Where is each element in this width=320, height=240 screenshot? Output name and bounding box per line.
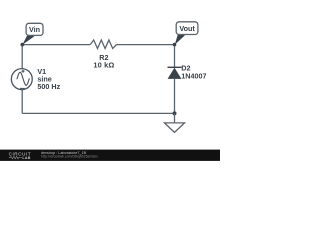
wire: V1 bottom to bottom rail: [21, 90, 23, 114]
junction dot at Vin corner: [21, 43, 25, 47]
wire: top rail left segment (Vin corner to R2): [22, 44, 90, 46]
svg-text:1N4007: 1N4007: [181, 71, 206, 80]
CircuitLab logo: [9, 152, 32, 161]
svg-text:10 kΩ: 10 kΩ: [93, 61, 114, 70]
wire: diode to ground junction: [174, 79, 176, 114]
junction dot at Vout corner: [173, 43, 177, 47]
svg-text:Vin: Vin: [29, 25, 40, 34]
junction dot at ground node: [173, 111, 177, 115]
svg-text:http://circuitlab.com/c6kq6h25: http://circuitlab.com/c6kq6h25am3xx: [41, 154, 98, 158]
watermark bar: [0, 150, 220, 161]
svg-text:Vout: Vout: [179, 24, 195, 33]
diode D2: [168, 67, 182, 79]
wire: stub to ground symbol: [174, 113, 176, 123]
voltage source V1 (sine): [11, 69, 32, 90]
svg-text:500 Hz: 500 Hz: [37, 82, 60, 91]
ground symbol: [164, 123, 184, 132]
resistor R2 zigzag: [90, 40, 116, 49]
wire: top rail right segment (R2 to Vout corner): [116, 44, 174, 46]
wire: Vout corner down to diode D2: [174, 45, 176, 68]
wire: bottom rail: [22, 112, 174, 114]
svg-text:LAB: LAB: [22, 156, 30, 160]
node Vin flag: [22, 23, 43, 45]
node Vout flag: [175, 22, 198, 45]
wire: left vertical (Vin corner down to V1 top): [21, 45, 23, 69]
